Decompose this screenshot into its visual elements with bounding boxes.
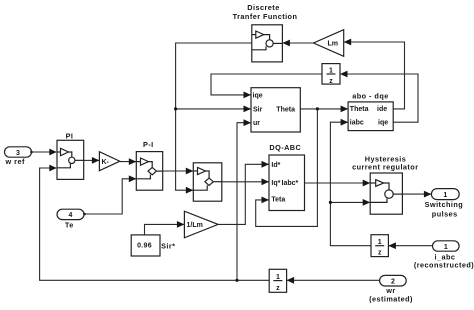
svg-text:Theta: Theta [350,106,369,113]
svg-text:z: z [329,78,333,85]
wire abo-dqe iqe output right, up x418, left into 1/z (top) [340,74,418,122]
svg-text:(estimated): (estimated) [369,295,413,304]
gain 1/Lm triangle [184,211,218,238]
svg-text:1: 1 [329,67,333,74]
block DQ-ABC transformation [269,155,305,211]
svg-text:Theta: Theta [276,106,295,113]
svg-text:z: z [276,285,280,292]
port 2 oval (wr estimated) [380,275,407,286]
svg-text:1: 1 [444,244,448,251]
svg-text:Discrete: Discrete [247,3,279,12]
constant 0.96 block [131,235,160,256]
junction iabc branch [329,201,332,204]
arrow into K- [92,157,100,164]
wire branch Sir: from x175.6 junction right into Theta Sir input [176,108,251,110]
svg-text:current regulator: current regulator [352,163,418,172]
svg-text:3: 3 [16,150,20,157]
svg-text:Tranfer Function: Tranfer Function [233,12,298,21]
node w ref output dot [30,151,33,154]
junction Sir branch [174,107,177,110]
arrow into PI in2 [49,165,57,172]
wire i_abc port left into unit delay 1/z [389,245,433,247]
svg-text:pulses: pulses [432,209,458,218]
arrow into Switching pulses port [424,191,432,198]
fraction bar of 1/z i_abc [375,245,384,247]
iq* subsystem icon: stub, gain triangle, sum diamond, elbows [193,170,197,172]
junction Theta branch [316,107,319,110]
wire DQ-ABC Iabc* output to hysteresis in1 [305,182,371,184]
arrow left into Lm gain [344,39,352,46]
block PI subsystem [57,140,84,179]
port 4 oval (Te) [57,209,84,219]
svg-text:Switching: Switching [425,200,464,209]
svg-text:ide: ide [377,106,387,113]
svg-text:4: 4 [69,212,73,219]
wire branch Teta: down at x317.4 to y226.4, left, up at x255.7 into DQ-ABC Teta [256,109,318,226]
wire Te port right, up at x122, to P-I in2 [84,179,136,214]
svg-text:1/Lm: 1/Lm [187,222,203,229]
svg-text:Id*: Id* [271,162,280,169]
block P-I subsystem [136,152,162,191]
arrow left into 1/z top [340,71,348,78]
fraction bar of 1/z wr [273,280,282,282]
port 3 oval (w ref) [5,147,32,157]
block abo-dqe transformation [348,102,393,131]
arrow into Theta ur [244,119,252,126]
wire branch ur: bottom bus up at x237 to Theta ur input [237,123,251,281]
junction ur branch [235,279,238,282]
svg-text:DQ-ABC: DQ-ABC [269,143,301,152]
arrow into hysteresis in2 [363,199,371,206]
svg-text:abo - dqe: abo - dqe [352,92,388,101]
wire wr estimated port left into 1/z (wr) [287,279,380,281]
svg-text:iabc: iabc [350,120,364,127]
wire w ref port to PI in1 [31,151,56,153]
arrow into DQ-ABC Iq* [262,178,270,185]
arrow into P-I in1 [129,158,137,165]
PI icon: stub, gain triangle, sum circle, elbows [57,151,61,153]
svg-text:iqe: iqe [378,120,388,127]
svg-text:Sir: Sir [253,106,263,113]
svg-text:2: 2 [391,279,395,286]
svg-text:Te: Te [65,220,74,229]
arrow into abo-dqe iabc [341,119,349,126]
gain K- triangle [99,152,119,171]
gain Lm triangle (left pointing) [314,30,344,57]
wire K- output to P-I in1 [120,161,136,163]
wire 1/Lm output right, up at x245.3, into DQ-ABC Id* input [218,164,269,224]
svg-text:Iabc*: Iabc* [282,180,299,187]
arrow into DQ-ABC Id* [262,161,270,168]
arrow into DQ-ABC Teta [262,197,270,204]
hysteresis icon: stub, gain triangle, sum circle, elbows [370,182,376,184]
wire P-I output to iq subsystem in1 [163,170,193,172]
arrow into hysteresis in1 [363,180,371,187]
svg-text:ur: ur [253,120,260,127]
svg-text:1: 1 [378,239,382,246]
P-I icon: stub, gain triangle, sum diamond, elbows [136,161,140,163]
svg-text:1: 1 [443,192,447,199]
arrow into iq subsystem in2 [186,187,194,194]
arrow into abo-dqe Theta [341,106,349,113]
block Hysteresis current regulator subsystem [370,173,402,214]
arrow into PI in1 [49,149,57,156]
wire abo-dqe ide output right, up x404.5, left into Lm gain [344,42,405,109]
port 1 oval (i_abc reconstructed) [433,241,460,251]
svg-text:0.96: 0.96 [137,243,152,250]
svg-text:Sir*: Sir* [161,241,175,250]
wire hysteresis output to Switching pulses port [402,193,431,195]
wire PI output to K- gain [84,159,100,161]
node Te output dot [83,213,86,216]
wire 1/z (top) output left, down x211, into Theta iqe input [211,74,322,95]
svg-text:z: z [378,250,382,257]
arrow into Theta iqe [244,92,252,99]
block Theta calculation [251,88,300,132]
arrow left into Discrete Transfer Fcn [282,40,290,47]
wire 1/z (i_abc) output left, up x330.4, into abo-dqe iabc input [330,122,371,246]
svg-text:iqe: iqe [253,92,263,99]
svg-text:Iq*: Iq* [271,180,280,187]
wire Discrete Transfer Fcn output: left at y43, down x175.6, to subsystem in2; branch to Sir [176,43,252,190]
block Discrete Tranfer Function subsystem [252,25,283,62]
wire Lm output left into Discrete Transfer Fcn input [283,42,314,44]
fraction bar of 1/z top [327,73,336,75]
svg-text:Lm: Lm [328,41,339,48]
svg-text:w ref: w ref [5,157,25,166]
svg-text:P-I: P-I [143,140,154,149]
DTF icon: stub, gain triangle, sum circle, elbows [252,34,256,36]
arrow into P-I in2 [129,175,137,182]
block iq* subsystem (unlabeled) [193,163,222,201]
unit delay 1/z (i_abc) [371,235,388,257]
unit delay 1/z (top, iqe) [322,64,340,85]
svg-text:PI: PI [66,131,74,140]
svg-text:Teta: Teta [271,197,285,204]
wire constant 0.96 up and right into 1/Lm gain [145,224,185,235]
arrow into iq subsystem in1 [186,168,194,175]
unit delay 1/z (wr) [269,269,286,292]
svg-text:1: 1 [276,274,280,281]
svg-text:(reconstructed): (reconstructed) [414,261,474,270]
wire iq subsystem output to DQ-ABC Iq* input [222,181,269,183]
port 1 oval (Switching pulses) [431,189,459,200]
arrow into 1/Lm [177,221,185,228]
wire speed feedback bus: 1/z (wr) output left to x39 then up to PI in2 [40,168,270,280]
arrow left into 1/z i_abc [388,242,396,249]
wire Theta output to abo-dqe Theta input [300,108,348,110]
svg-text:K-: K- [102,159,110,166]
arrow into Theta Sir [244,106,252,113]
arrow left into 1/z wr [287,277,295,284]
wire branch hysteresis in2 from x330.4 junction [330,201,370,203]
